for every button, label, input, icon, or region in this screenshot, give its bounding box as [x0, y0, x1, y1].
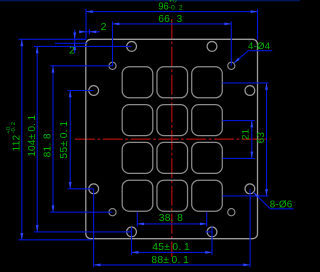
dim 2v extension lower: [55, 42, 88, 44]
keypad button r1c2: [157, 67, 188, 98]
dim 55 extension bottom: [67, 188, 93, 190]
label 8-D6 text: [270, 200, 293, 211]
dim 96 text: [158, 0, 183, 13]
keypad button r1c1: [122, 67, 153, 98]
hole D6 top-left: [127, 42, 137, 52]
hole D6 left-lower: [89, 184, 99, 194]
dim 63 extension bottom: [222, 195, 268, 197]
dim 45 line: [132, 251, 213, 254]
svg-text:63: 63: [256, 131, 267, 143]
dim 104 line: [36, 46, 39, 232]
leader 4-D4: [234, 51, 272, 63]
keypad button r4c1: [122, 180, 153, 211]
dim 96 extension right: [257, 9, 259, 40]
keypad button r2c3: [192, 105, 223, 136]
dim 66.3 text: [158, 14, 182, 25]
dim 112 text: [6, 122, 23, 152]
dim 21 extension bottom: [222, 157, 254, 159]
svg-text:+0: +0: [6, 126, 12, 134]
hole D6 bottom-right tick: [205, 231, 212, 233]
dim 88 extension left: [93, 189, 95, 267]
dim 112 extension top: [19, 38, 87, 40]
leader 8-D6: [254, 192, 294, 208]
keypad button r3c2: [157, 142, 188, 173]
dim 88 extension right: [249, 189, 251, 267]
dim 63 text: [256, 131, 267, 143]
dim 38.8 text: [159, 213, 183, 224]
svg-text:104±0.1: 104±0.1: [27, 114, 38, 156]
svg-text:4-Ø4: 4-Ø4: [248, 41, 271, 52]
hole D4 bottom-right: [228, 209, 235, 216]
keypad button r4c3: [192, 180, 223, 211]
dim 63 extension top: [222, 82, 268, 84]
dim 38.8 extension right: [206, 212, 208, 227]
svg-text:21: 21: [240, 129, 251, 140]
centerline vertical (red): [171, 19, 173, 257]
keypad button r3c3: [192, 142, 223, 173]
dim 104 text: [27, 114, 38, 156]
keypad button r2c2: [157, 105, 188, 136]
hole D6 right-upper: [245, 86, 255, 96]
svg-text:81.8: 81.8: [43, 133, 54, 157]
dim 45 extension left: [131, 227, 133, 255]
dim 55 extension top: [67, 90, 93, 92]
dim 45 text: [152, 242, 190, 253]
dim 81.8 extension bottom: [50, 211, 112, 213]
dim 2v text: [69, 45, 75, 57]
label 4-D4 text: [248, 41, 271, 52]
keypad button r1c3: [192, 67, 223, 98]
hole D6 left-upper: [89, 86, 99, 96]
svg-text:-0.2: -0.2: [11, 122, 17, 134]
dim 66.3 line: [113, 23, 232, 26]
svg-text:96: 96: [158, 2, 169, 13]
dim 112 line: [20, 39, 23, 240]
dim 2v line: [73, 30, 76, 54]
top screen edge artifact: [0, 0, 300, 2]
dim 81.8 line: [52, 66, 55, 212]
dim 2h text: [101, 21, 107, 33]
dim 38.8 extension left: [136, 212, 138, 227]
dim 2h tick: [89, 29, 91, 34]
dim 81.8 text: [43, 133, 54, 157]
hole D4 bottom-left: [109, 209, 116, 216]
dim 96 line: [86, 10, 258, 13]
keypad button r2c1: [122, 105, 153, 136]
dim 21 text: [240, 129, 251, 140]
centerline horizontal (red): [75, 138, 271, 140]
hole D6 bottom-left tick: [125, 231, 132, 233]
svg-text:2: 2: [101, 21, 107, 33]
dim 104 extension top: [34, 45, 132, 47]
dim 96 extension left: [85, 9, 87, 40]
dim 45 extension right: [211, 227, 213, 255]
dim 2v extension upper: [74, 38, 87, 40]
hole D4 top-left: [109, 62, 116, 69]
dim 55 line: [69, 91, 72, 189]
dim 2h line: [79, 30, 100, 33]
hole D6 top-right: [207, 42, 217, 52]
hole D6 right-lower: [245, 184, 255, 194]
dim 112 extension bottom: [19, 239, 93, 241]
dim 66.3 extension right: [230, 21, 232, 65]
svg-text:8-Ø6: 8-Ø6: [270, 200, 293, 211]
dim 81.8 extension top: [50, 65, 112, 67]
svg-text:-0.2: -0.2: [168, 4, 183, 11]
svg-text:66.3: 66.3: [158, 14, 182, 25]
hole D6 bottom-right: [207, 227, 217, 237]
dim 66.3 extension left: [112, 21, 114, 65]
hole D6 bottom-left: [127, 227, 137, 237]
dim 104 extension bottom: [34, 231, 132, 233]
keypad button r3c1: [122, 142, 153, 173]
dim 63 line: [265, 83, 268, 196]
svg-text:38.8: 38.8: [159, 213, 183, 224]
hole D4 top-right: [228, 62, 235, 69]
dim 38.8 line: [137, 223, 206, 226]
dim 21 line: [250, 121, 253, 159]
dim 88 text: [151, 255, 189, 266]
plate outline: [86, 39, 258, 238]
svg-text:112: 112: [12, 135, 23, 152]
dim 88 line: [94, 264, 251, 267]
dim 21 extension top: [222, 120, 254, 122]
dim 55 text: [59, 121, 70, 159]
keypad button r4c2: [157, 180, 188, 211]
